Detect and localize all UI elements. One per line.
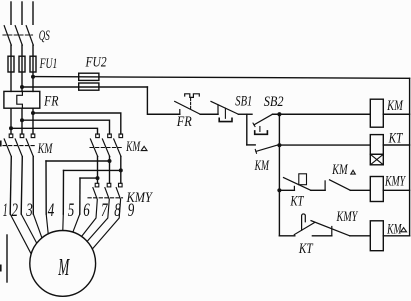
scan edge mark upper xyxy=(0,141,2,147)
button SB1 stem xyxy=(224,108,226,118)
svg-text:6: 6 xyxy=(83,201,90,221)
wire motor lead2 slant xyxy=(21,214,37,243)
svg-text:3: 3 xyxy=(26,201,33,221)
wire motor lead3 slant xyxy=(33,214,42,238)
contactor KM terminal pole3 xyxy=(31,134,35,138)
button SB2 cap xyxy=(255,131,268,134)
wire to KMY coil xyxy=(350,189,370,191)
motor M circle xyxy=(30,231,96,297)
contactor KMY linkage dashed xyxy=(88,197,123,199)
node motor lead4 xyxy=(108,159,112,163)
wire KT to KM-delta contact xyxy=(311,189,325,191)
contact KT NC blade xyxy=(284,178,311,191)
wire phase L2 top xyxy=(21,2,23,24)
switch QS blade pole3 xyxy=(26,26,33,46)
wire branch L3 to KM-delta xyxy=(33,113,121,134)
contact FR tick xyxy=(179,110,181,115)
svg-text:KM: KM xyxy=(386,221,402,237)
contactor KM blade pole3 xyxy=(26,139,33,157)
wire motor lead6 slant xyxy=(73,214,80,232)
contact KMY NC blade xyxy=(311,221,350,236)
contact FR actuator dashed xyxy=(190,99,192,111)
stray scan line left xyxy=(6,235,8,282)
svg-text:KT: KT xyxy=(290,194,305,210)
coil KM xyxy=(370,99,383,127)
wire KM coil to rail xyxy=(383,113,409,115)
contactor KM-delta blade pole2 xyxy=(102,139,109,157)
wire L3 FR to KM xyxy=(32,108,34,134)
contact KT NC delay flag xyxy=(299,174,307,185)
wire motor lead4 vertical xyxy=(45,161,47,214)
node C xyxy=(277,188,281,192)
wire motor lead6 vertical xyxy=(79,178,81,214)
wire rung4 start xyxy=(279,235,294,237)
coil KT body xyxy=(370,135,383,155)
svg-text:7: 7 xyxy=(101,201,108,221)
contactor KM terminal pole1 xyxy=(9,134,13,138)
contact KM selfhold blade xyxy=(256,145,277,151)
wire selfhold drop xyxy=(246,114,248,145)
wire L1 FR to KM xyxy=(10,108,12,134)
wire L2 FR to KM xyxy=(21,108,23,134)
contactor KMY terminal pole3 xyxy=(119,183,123,187)
contactor KM-delta terminal pole3 xyxy=(119,134,123,138)
svg-text:KMY: KMY xyxy=(384,173,406,189)
contactor KM-delta terminal pole2 xyxy=(108,134,112,138)
contactor KM-delta linkage dashed xyxy=(90,147,123,149)
contactor KMY terminal pole2 xyxy=(107,183,111,187)
wire motor lead7 xyxy=(82,188,98,237)
contactor KMY terminal pole1 xyxy=(95,183,99,187)
wire KT coil to rail xyxy=(383,144,409,146)
contact KM-delta NC tick xyxy=(324,181,326,190)
node tap L2 control xyxy=(20,85,24,89)
fuse FU1 pole3 xyxy=(30,56,36,72)
node tap L3 control xyxy=(31,75,35,79)
contact KT NO delay symbol xyxy=(302,214,306,230)
svg-text:QS: QS xyxy=(39,28,50,44)
wire L3 QS to FU1 xyxy=(32,45,34,91)
wire FR to SB1 xyxy=(200,113,218,115)
contactor KM blade pole2 xyxy=(15,139,22,157)
svg-text:KT: KT xyxy=(388,130,404,146)
wire KM-delta out pole2 xyxy=(109,157,111,184)
label KM-delta rung3 triangle xyxy=(351,170,356,174)
wire KMY coil to rail xyxy=(383,189,409,191)
wire rung2 xyxy=(279,144,370,146)
fuse FU2 lower xyxy=(79,83,99,90)
contact KT NO blade xyxy=(294,223,314,235)
svg-text:FR: FR xyxy=(176,114,192,130)
node branch L2 xyxy=(20,118,24,122)
node branch L1 xyxy=(9,126,13,130)
wire SB1 to SB2 xyxy=(238,113,252,115)
coil KM-delta xyxy=(370,221,383,251)
svg-text:SB1: SB1 xyxy=(235,94,252,110)
wire selfhold stub xyxy=(247,144,255,146)
wire lower control feed xyxy=(22,86,147,88)
svg-text:4: 4 xyxy=(48,201,55,221)
wire branch L1 to KM-delta xyxy=(11,128,98,134)
switch QS linkage dashed xyxy=(3,34,33,36)
wire rung3 start xyxy=(279,189,294,191)
svg-text:FR: FR xyxy=(43,93,58,109)
contact KM-delta NC blade xyxy=(330,180,351,191)
switch QS blade pole2 xyxy=(15,26,22,46)
thermal relay FR heater box xyxy=(4,91,40,108)
thermal relay FR heater jog xyxy=(17,91,23,108)
button SB1 tick xyxy=(217,105,219,114)
svg-text:FU1: FU1 xyxy=(39,56,57,72)
svg-text:KM: KM xyxy=(331,162,348,178)
contactor KM-delta terminal pole1 xyxy=(96,134,100,138)
wire KM-delta out pole1 xyxy=(97,157,99,184)
wire KM out pole3 xyxy=(32,157,34,215)
contact FR blade xyxy=(175,101,201,114)
wire motor lead5 slant xyxy=(62,214,65,231)
wire top control rail xyxy=(33,77,410,79)
svg-text:KMY: KMY xyxy=(336,209,359,225)
wire KT NO to KMY contact xyxy=(312,235,331,237)
node B xyxy=(277,143,281,147)
fuse FU1 pole1 xyxy=(8,56,14,72)
contact KM selfhold tick xyxy=(255,150,256,154)
wire left branch rail xyxy=(278,114,280,236)
wire motor lead5 vertical xyxy=(62,170,64,214)
svg-text:8: 8 xyxy=(114,201,121,221)
wire SB2 to KM coil xyxy=(273,113,371,115)
coil KMY xyxy=(370,177,383,202)
svg-text:9: 9 xyxy=(128,201,135,221)
button SB1 cap xyxy=(219,118,232,121)
label KM-delta main triangle xyxy=(141,146,147,150)
label KM-delta coil triangle xyxy=(401,228,407,232)
wire motor lead9 xyxy=(92,188,120,249)
contact FR thermal symbol xyxy=(185,94,200,98)
svg-text:KM: KM xyxy=(254,158,270,174)
node branch L3 xyxy=(31,111,35,115)
button SB1 blade xyxy=(211,101,238,114)
coil KT delay box xyxy=(370,154,383,165)
button SB2 blade tick xyxy=(253,123,255,126)
svg-text:KM: KM xyxy=(386,98,403,114)
contactor KM linkage dashed xyxy=(3,145,35,147)
svg-text:SB2: SB2 xyxy=(264,94,284,110)
wire KM-delta out pole3 xyxy=(120,157,122,184)
wire control drop xyxy=(147,87,179,114)
node A xyxy=(277,112,281,116)
button SB2 stem xyxy=(259,127,261,132)
wire L1 QS to FU1 xyxy=(10,45,12,91)
svg-text:1: 1 xyxy=(3,201,8,221)
wire motor lead6 horizontal xyxy=(80,177,98,179)
contactor KM blade pole1 xyxy=(4,139,11,157)
wire branch L2 to KM-delta xyxy=(22,120,110,134)
contact KMY NC tick xyxy=(331,227,333,236)
fuse FU2 upper xyxy=(79,73,99,80)
contactor KM-delta blade pole3 xyxy=(114,139,121,157)
wire phase L1 top xyxy=(10,2,12,24)
wire right rail xyxy=(409,78,411,236)
wire motor lead4 horizontal xyxy=(46,160,110,162)
svg-text:2: 2 xyxy=(12,201,19,221)
wire motor lead8 xyxy=(87,188,109,242)
svg-text:FU2: FU2 xyxy=(85,54,107,70)
svg-text:KM: KM xyxy=(125,139,141,155)
contact KT NC tick xyxy=(293,186,295,190)
wire KM out pole2 xyxy=(21,157,22,215)
coil KT delay cross xyxy=(370,154,383,165)
wire phase L3 top xyxy=(32,2,34,24)
wire KM-delta coil to rail xyxy=(383,235,409,237)
button SB2 blade xyxy=(254,114,273,125)
wire motor lead1 slant xyxy=(10,214,31,254)
svg-text:KM: KM xyxy=(37,141,53,157)
svg-text:5: 5 xyxy=(68,201,75,221)
wire motor lead4 slant xyxy=(46,214,48,234)
node motor lead6 xyxy=(96,176,100,180)
wire L2 QS to FU1 xyxy=(21,45,23,91)
scan edge mark lower xyxy=(0,265,2,272)
contactor KM terminal pole2 xyxy=(20,134,24,138)
wire KM out pole1 xyxy=(10,157,11,215)
svg-text:M: M xyxy=(58,255,71,281)
node motor lead5 xyxy=(119,168,123,172)
svg-text:KT: KT xyxy=(298,241,314,257)
fuse FU1 pole2 xyxy=(19,56,25,72)
wire to KM-delta coil xyxy=(350,235,371,237)
wire motor lead5 horizontal xyxy=(64,169,121,171)
switch QS blade pole1 xyxy=(4,26,11,46)
contactor KM-delta blade pole1 xyxy=(90,139,97,157)
